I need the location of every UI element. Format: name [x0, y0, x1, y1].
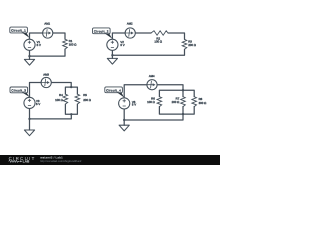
svg-text:AM2: AM2: [127, 22, 133, 25]
svg-text:R1: R1: [69, 40, 73, 43]
svg-text:R8: R8: [199, 98, 203, 101]
svg-text:5 V: 5 V: [120, 44, 124, 47]
svg-text:100 Ω: 100 Ω: [55, 99, 63, 102]
svg-text:5 V: 5 V: [36, 103, 40, 106]
svg-text:R5: R5: [83, 94, 87, 97]
svg-text:100 Ω: 100 Ω: [154, 40, 162, 43]
svg-text:R7: R7: [176, 97, 180, 100]
svg-text:200 Ω: 200 Ω: [83, 99, 91, 102]
svg-text:AM3: AM3: [43, 73, 49, 76]
svg-text:200 Ω: 200 Ω: [188, 44, 196, 47]
svg-text:R4: R4: [59, 94, 63, 97]
svg-text:AM4: AM4: [149, 74, 155, 77]
svg-text:R2: R2: [156, 37, 160, 40]
svg-text:Circuit_3: Circuit_3: [11, 89, 26, 93]
svg-text:http://circuitlab.com/c6rg2un4: http://circuitlab.com/c6rg2un42fun2: [40, 160, 81, 163]
svg-text:300 Ω: 300 Ω: [199, 102, 207, 105]
svg-text:5 V: 5 V: [132, 103, 136, 106]
svg-text:R6: R6: [151, 97, 155, 100]
svg-text:200 Ω: 200 Ω: [172, 101, 180, 104]
svg-text:100 Ω: 100 Ω: [69, 43, 77, 46]
svg-text:5 V: 5 V: [37, 44, 41, 47]
svg-text:watami2 / Lab1: watami2 / Lab1: [40, 156, 63, 159]
svg-text:Circuit_1: Circuit_1: [11, 29, 26, 33]
svg-text:LAB: LAB: [23, 160, 30, 164]
svg-text:100 Ω: 100 Ω: [147, 101, 155, 104]
svg-text:R3: R3: [188, 40, 192, 43]
svg-text:CIRCUIT: CIRCUIT: [9, 156, 36, 161]
svg-text:AM1: AM1: [44, 22, 50, 25]
svg-text:Circuit_2: Circuit_2: [94, 30, 109, 34]
svg-text:Circuit_4: Circuit_4: [106, 89, 121, 93]
